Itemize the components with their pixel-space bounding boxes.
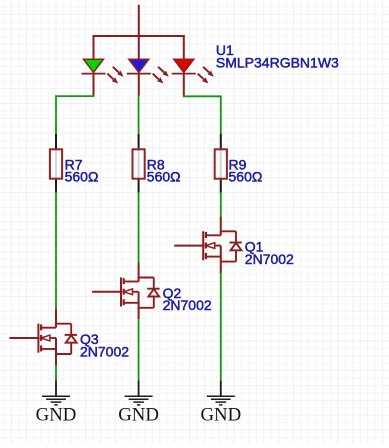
resistor R9 (215, 134, 227, 193)
ground GND2 (118, 380, 159, 425)
wire: bus to blue LED anode (138, 36, 140, 59)
transistor Q3 (N-MOSFET) (10, 309, 77, 366)
svg-text:GND: GND (118, 405, 159, 426)
svg-text:2N7002: 2N7002 (245, 251, 294, 267)
ground GND3 (200, 380, 241, 425)
svg-text:560Ω: 560Ω (229, 169, 263, 185)
svg-text:SMLP34RGBN1W3: SMLP34RGBN1W3 (216, 54, 339, 70)
svg-text:2N7002: 2N7002 (80, 343, 129, 359)
wire: blue LED cathode to R8 (138, 96, 140, 134)
wire: Q2 source to GND (138, 319, 140, 380)
svg-text:560Ω: 560Ω (147, 169, 181, 185)
wire: anode supply from top edge (138, 6, 140, 38)
wire: red LED cathode to R9 (184, 96, 221, 134)
wire: R9 to Q1 drain (220, 193, 222, 217)
LED red of U1 (172, 59, 214, 95)
LED green of U1 (82, 59, 124, 95)
resistor R7 (50, 134, 62, 193)
wire: anode bus (93, 35, 185, 37)
wire: bus to red LED anode (183, 35, 185, 59)
svg-text:GND: GND (200, 405, 241, 426)
wire: green LED cathode to R7 (56, 96, 94, 134)
wire: Q3 source to GND (55, 365, 57, 380)
LED blue of U1 (127, 59, 169, 95)
svg-text:560Ω: 560Ω (65, 169, 99, 185)
transistor Q2 (N-MOSFET) (93, 263, 160, 320)
wire: R7 to Q3 drain (55, 193, 57, 309)
transistor Q1 (N-MOSFET) (175, 216, 242, 273)
wire: Q1 source to GND (220, 273, 222, 380)
svg-text:GND: GND (36, 405, 77, 426)
resistor R8 (133, 134, 145, 193)
wire: R8 to Q2 drain (138, 193, 140, 263)
ground GND1 (36, 380, 77, 425)
wire: bus to green LED anode (93, 35, 95, 59)
svg-text:2N7002: 2N7002 (163, 297, 212, 313)
